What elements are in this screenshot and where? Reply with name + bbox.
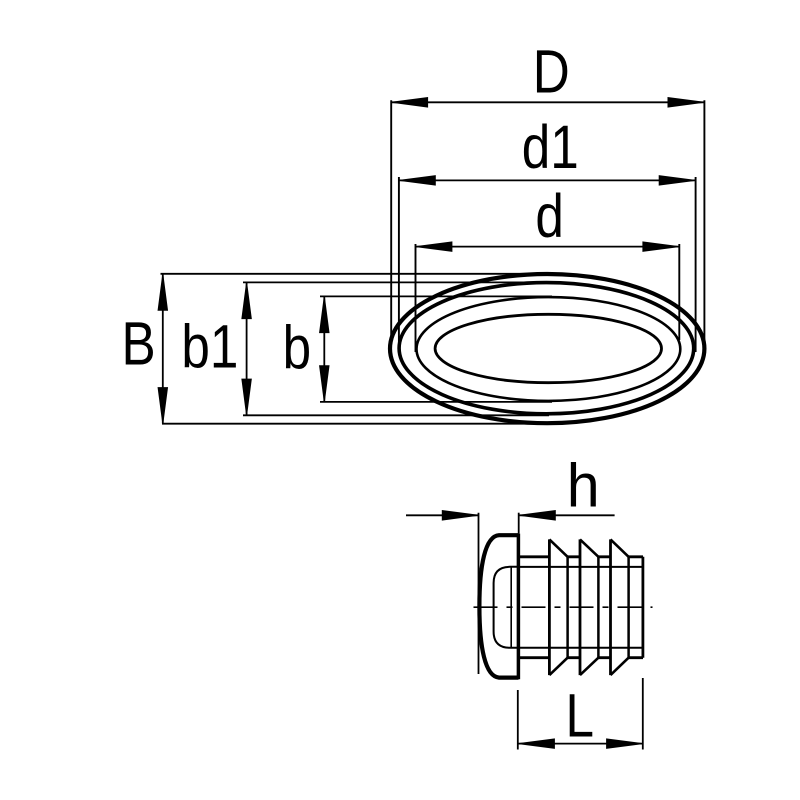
- h left arrow tail: [406, 514, 478, 516]
- extension line d right: [678, 244, 680, 340]
- inner cavity outline (side view): [494, 567, 519, 648]
- outer flange ellipse D/B (top view): [390, 274, 704, 423]
- arrowhead b top: [320, 297, 329, 333]
- extension line d left: [415, 244, 417, 352]
- svg-text:h: h: [567, 452, 600, 520]
- arrowhead d1 right: [659, 176, 695, 185]
- fin 2 bottom diagonal: [580, 658, 598, 675]
- dome cap outline (side view): [479, 535, 518, 677]
- fin 2 edge vertical: [579, 539, 582, 675]
- fin 1 landing vertical: [566, 557, 569, 658]
- arrowhead B bottom: [158, 388, 167, 424]
- shank end vertical: [642, 557, 645, 658]
- h right arrow tail: [520, 514, 615, 516]
- fin 1 bottom diagonal: [549, 658, 567, 675]
- arrowhead h right: [519, 511, 555, 520]
- fin 3 edge vertical: [609, 539, 612, 675]
- arrowhead b1 bottom: [242, 379, 251, 415]
- extension line B bottom: [162, 423, 542, 425]
- extension line h right: [518, 513, 520, 534]
- flange right face (side view): [517, 534, 521, 680]
- shank top surface segments: [519, 555, 643, 558]
- flange inner ellipse d1/b1 (top view): [399, 283, 694, 414]
- extension line D left: [390, 100, 392, 338]
- dimension line b1: [246, 283, 248, 415]
- extension line b top: [320, 295, 552, 297]
- dimension line D: [392, 101, 705, 103]
- arrowhead d right: [643, 242, 679, 251]
- arrowhead d1 left: [399, 176, 435, 185]
- arrowhead B top: [158, 274, 167, 310]
- svg-text:d: d: [535, 182, 563, 250]
- extension line L left: [517, 690, 519, 750]
- svg-text:L: L: [565, 681, 593, 749]
- shank bottom surface segments: [519, 656, 643, 659]
- extension line h left: [478, 513, 480, 674]
- dimension line b: [323, 297, 325, 402]
- cavity ellipse (top view innermost): [435, 314, 661, 382]
- svg-text:b1: b1: [181, 312, 238, 380]
- arrowhead D right: [668, 98, 704, 107]
- arrowhead L right: [607, 739, 643, 748]
- extension line B top: [161, 273, 552, 275]
- dimension line d1: [399, 179, 695, 181]
- shank inner top line (side view): [519, 566, 643, 568]
- arrowhead b bottom: [320, 366, 329, 402]
- arrowhead h left: [442, 511, 478, 520]
- shank inner bottom line (side view): [519, 647, 643, 649]
- fin 3 landing vertical: [627, 557, 630, 658]
- extension line b1 top: [243, 281, 549, 283]
- fin 3 top diagonal: [611, 539, 629, 556]
- extension line L right: [642, 678, 644, 750]
- fin 2 top diagonal: [580, 539, 598, 556]
- arrowhead b1 top: [242, 283, 251, 319]
- arrowhead L left: [518, 739, 554, 748]
- svg-text:B: B: [122, 309, 156, 377]
- extension line d1 right: [695, 177, 697, 352]
- dimension line d: [416, 246, 679, 248]
- body ellipse d/b (top view): [417, 297, 681, 401]
- fin 1 top diagonal: [549, 539, 567, 556]
- arrowhead d left: [416, 242, 452, 251]
- dimension line L: [518, 743, 642, 745]
- extension line d1 left: [398, 177, 400, 353]
- fin 2 landing vertical: [597, 557, 600, 658]
- extension line D right: [703, 100, 705, 340]
- centerline (side view): [474, 606, 653, 608]
- svg-text:D: D: [533, 37, 570, 105]
- fin 1 edge vertical: [548, 539, 551, 675]
- extension line b1 bottom: [243, 414, 549, 416]
- fin 3 bottom diagonal: [611, 658, 629, 675]
- cavity edge vertical (side view): [510, 567, 512, 648]
- svg-text:b: b: [283, 313, 311, 381]
- svg-text:d1: d1: [522, 113, 579, 181]
- dimension line B: [162, 274, 164, 423]
- arrowhead D left: [392, 98, 428, 107]
- extension line b bottom: [320, 401, 552, 403]
